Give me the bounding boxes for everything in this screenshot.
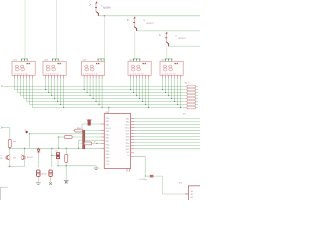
svg-text:RA0: RA0 <box>126 121 130 124</box>
pin IC1 right 9 <box>131 142 135 144</box>
pins of LD4 (top) <box>134 59 140 62</box>
junction LD2 pin 4 <box>54 98 55 99</box>
wire rail to T2 <box>24 148 26 155</box>
wire joining top pins LD2 <box>53 58 59 60</box>
pins of LD2 (top) <box>53 59 59 62</box>
wire LD2 pin 1 to bus <box>45 79 47 90</box>
wire segment bus line 1 <box>3 86 186 88</box>
resistor R13 <box>65 154 68 162</box>
junction S1 <box>29 133 30 134</box>
junction LD5 pin 2 <box>165 92 166 93</box>
svg-text:C3: C3 <box>55 151 57 153</box>
junction LD5 pin 3 <box>168 95 169 96</box>
junction LD5 pin 6 <box>177 104 178 105</box>
junction rail/C2 branch <box>51 148 52 149</box>
wire common anode display3 <box>103 16 105 60</box>
junction top pin LD2 <box>55 59 56 60</box>
wire T1-T2 emitter join <box>8 165 25 167</box>
wire LD3 pin 1 to bus <box>83 79 85 90</box>
wire LD5 pin 6 to bus <box>177 79 179 105</box>
wire LD3 pin 2 to bus <box>86 79 88 93</box>
capacitor C1 <box>37 170 40 176</box>
svg-text:RA4: RA4 <box>106 124 110 127</box>
svg-text:T6: T6 <box>143 20 145 22</box>
svg-text:VDD: VDD <box>125 131 130 133</box>
svg-text:12345678: 12345678 <box>83 73 98 75</box>
wire row 4 to IC1 <box>79 139 101 141</box>
wire IC1 right pin 10 to edge <box>135 145 200 147</box>
resistor R11 <box>64 136 72 139</box>
wire LD2 pin 7 to bus <box>63 79 65 108</box>
net arrow into T6 base <box>127 19 129 21</box>
resistor R5 (segment) <box>187 94 196 97</box>
svg-text:4x7SEG: 4x7SEG <box>103 7 111 9</box>
wire LD2 pin 2 to bus <box>48 79 50 93</box>
wire long rail to IC1 <box>10 147 101 149</box>
wire bottom net to ground <box>95 166 97 168</box>
wire LD4 pin 3 to bus <box>136 79 138 96</box>
junction LD4 pin 1 <box>130 89 131 90</box>
7-segment display LD4 <box>128 61 151 75</box>
wire segment bus line 6 from LD1 pin 5 <box>27 79 187 102</box>
wire C3 down <box>57 159 59 166</box>
wire to Q1 body <box>145 175 149 177</box>
wire Q1 to IC2 <box>154 176 189 194</box>
wire R13 down <box>65 163 67 166</box>
svg-text:BC557C: BC557C <box>147 23 155 25</box>
pin IC1 left <box>101 139 105 141</box>
wire corner to R3 <box>2 128 10 140</box>
junction R12 row <box>96 143 97 144</box>
junction top pin LD3 <box>104 59 105 60</box>
wire bottom net down <box>65 166 67 180</box>
wire R8 right stub <box>196 104 198 106</box>
wire LD2 pin 4 to bus <box>54 79 56 99</box>
pin IC1 right 2 <box>131 121 135 123</box>
junction LD4 pin 2 <box>133 92 134 93</box>
wire LD4 pin 1 to bus <box>130 79 132 90</box>
svg-text:VDD: VDD <box>106 161 111 163</box>
wire joining top pins LD5 <box>166 58 172 60</box>
pin IC1 left <box>101 136 105 138</box>
x-mark bottom <box>65 181 68 184</box>
wire switch row to IC1 <box>30 133 101 135</box>
pins of LD1 (bottom) <box>15 75 33 78</box>
wire T2 emitter down <box>24 160 26 167</box>
pins of LD2 (bottom) <box>46 75 64 78</box>
svg-text:RA3: RA3 <box>106 120 110 123</box>
junction LD3 pin 2 <box>86 92 87 93</box>
junction LD3 pin 6 <box>98 104 99 105</box>
svg-text:Q1 4MHz: Q1 4MHz <box>139 179 147 181</box>
wire R4 right stub <box>196 92 198 94</box>
transistor T1 <box>6 155 10 160</box>
junction top pin LD1 <box>27 59 28 60</box>
net arrow left (base drive) <box>1 127 3 129</box>
wire rail to C2 <box>51 148 53 167</box>
junction C3/bottom net <box>57 165 58 166</box>
diode D2 <box>37 149 40 152</box>
wire D2 to C1 <box>38 152 40 167</box>
wire rail digit5 (T7 collector) <box>169 45 200 47</box>
wire LD3 pin 4 to bus <box>92 79 94 99</box>
junction rail/row4 branch <box>78 148 79 149</box>
wire joining top pins LD4 <box>134 58 140 60</box>
junction rail/T2 <box>24 148 25 149</box>
svg-text:12345678: 12345678 <box>130 73 145 75</box>
junction LD2 pin 6 <box>60 104 61 105</box>
wire R3 right stub <box>196 89 198 91</box>
svg-text:RB6: RB6 <box>126 137 130 139</box>
svg-text:12345678: 12345678 <box>14 73 29 75</box>
wire LD5 pin 3 to bus <box>168 79 170 96</box>
svg-text:RB7: RB7 <box>126 134 130 136</box>
wire LD3 pin 6 to bus <box>98 79 100 105</box>
junction top pin LD1 <box>24 59 25 60</box>
junction LD2 pin 7 <box>63 107 64 108</box>
transistor T7 <box>165 32 168 47</box>
net arrow left edge <box>1 85 3 87</box>
svg-text:RB1: RB1 <box>106 138 110 140</box>
wire common anode display4 <box>134 31 136 59</box>
junction top pin LD4 <box>136 59 137 60</box>
wire LD5 pin 4 to bus <box>171 79 173 99</box>
pin IC1 right 1 <box>131 118 135 120</box>
svg-text:A2: A2 <box>191 196 193 199</box>
wire segment bus line 7 from LD1 pin 6 <box>30 79 187 105</box>
7-segment display LD5 <box>160 61 183 75</box>
svg-text:RB4: RB4 <box>106 148 110 150</box>
wire C2 down <box>50 176 52 182</box>
wire row 5 to IC1 <box>81 142 101 144</box>
svg-text:A1: A1 <box>191 193 193 196</box>
junction LD5 pin 5 <box>174 101 175 102</box>
svg-text:RB0: RB0 <box>106 134 110 136</box>
wire common anode display2 (from top) <box>56 0 58 60</box>
wire rail to R13 <box>65 148 67 154</box>
wire LD4 pin 4 to bus <box>139 79 141 99</box>
wire IC1 right pin 9 to edge <box>135 142 200 144</box>
wire IC1 right pin 3 to edge <box>135 124 200 126</box>
wire IC1 right pin 7 to edge <box>135 136 200 138</box>
wire R2 right stub <box>196 86 198 88</box>
junction Q1 <box>145 176 146 177</box>
pin IC1 bottom stubs <box>126 169 128 172</box>
wire IC1 right pin 11 to edge <box>135 148 200 150</box>
svg-text:10k: 10k <box>13 141 16 143</box>
svg-text:RB6: RB6 <box>106 154 110 156</box>
wire row 1 to IC1 <box>73 130 101 132</box>
wire IC1 right pin 6 to edge <box>135 133 200 135</box>
wire row A to IC1 <box>82 123 101 125</box>
svg-text:S1: S1 <box>25 130 27 132</box>
pin IC1 right 7 <box>131 136 135 138</box>
microcontroller IC1 <box>104 114 130 169</box>
junction LD4 pin 7 <box>148 107 149 108</box>
pin IC1 left <box>101 133 105 135</box>
wire LD5 pin 7 to bus <box>180 79 182 108</box>
svg-text:RB5: RB5 <box>126 140 130 142</box>
svg-text:RB3: RB3 <box>126 146 130 148</box>
svg-text:RB5: RB5 <box>106 151 110 153</box>
frame corner wire <box>1 187 8 200</box>
junction LD3 pin 1 <box>83 89 84 90</box>
resistor R10 <box>75 129 83 132</box>
svg-text:RB2: RB2 <box>126 149 130 151</box>
transistor T6 <box>133 16 136 31</box>
junction R3/rail <box>9 148 10 149</box>
wire segment bus line 2 from LD1 pin 1 <box>15 79 187 90</box>
wire LD4 pin 7 to bus <box>148 79 150 108</box>
resistor R3 <box>8 140 11 148</box>
junction LD2 pin 1 <box>45 89 46 90</box>
pins of LD3 (bottom) <box>84 75 102 78</box>
junction LD5 pin 1 <box>162 89 163 90</box>
junction C2 branch / cap E row <box>51 155 52 156</box>
pin IC1 right 11 <box>131 148 135 150</box>
svg-text:1u: 1u <box>45 174 47 176</box>
wire R5 right stub <box>196 95 198 97</box>
wire common anode display5 <box>166 46 168 59</box>
junction LD2 pin 5 <box>57 101 58 102</box>
wire segment bus line 5 from LD1 pin 4 <box>24 79 187 99</box>
net arrow into T5 base <box>89 4 91 6</box>
wire R3 to T1 <box>9 148 11 155</box>
capacitor C3 (electrolytic) <box>56 153 59 159</box>
wire IC1 right pin 8 to edge <box>135 139 200 141</box>
junction rail/row3 branch <box>58 148 59 149</box>
junction top pin LD3 <box>98 59 99 60</box>
junction LD5 pin 4 <box>171 98 172 99</box>
svg-text:MCLR: MCLR <box>106 128 112 130</box>
ground right <box>94 168 99 170</box>
wire IC1 to Q1 <box>134 157 145 176</box>
junction top pin LD5 <box>168 59 169 60</box>
7-segment display LD2 <box>43 61 66 75</box>
junction top pin LD1 <box>21 59 22 60</box>
junction top pin LD4 <box>133 59 134 60</box>
wire row3 branch down to rail <box>58 137 60 148</box>
svg-text:OSC1: OSC1 <box>124 125 129 127</box>
junction R13/bottom net <box>66 165 67 166</box>
wire to C3 <box>52 154 56 156</box>
svg-text:RA1: RA1 <box>126 118 130 121</box>
junction LD2 pin 3 <box>51 95 52 96</box>
junction top pin LD3 <box>101 59 102 60</box>
svg-text:BC557C: BC557C <box>179 38 187 40</box>
resistor R4 (segment) <box>187 91 196 94</box>
resistor R12 <box>84 142 92 145</box>
junction IC1 top pin/bus <box>108 107 109 108</box>
junction rail/R13 branch <box>66 148 67 149</box>
junction LD3 pin 3 <box>89 95 90 96</box>
IC2 pin names <box>191 190 193 199</box>
svg-text:RA2: RA2 <box>106 117 110 120</box>
pin IC1 left <box>101 123 105 125</box>
wire LD2 pin 3 to bus <box>51 79 53 96</box>
pin IC1 right 8 <box>131 139 135 141</box>
wire LD2 pin 6 to bus <box>60 79 62 105</box>
junction top pin LD5 <box>171 59 172 60</box>
junction LD4 pin 5 <box>142 101 143 102</box>
wire IC1 right pin 4 to edge <box>135 127 200 129</box>
wire IC1 right pin 2 to edge <box>135 121 200 123</box>
wire row 3 to IC1 <box>58 136 101 138</box>
svg-text:T0: T0 <box>127 155 129 157</box>
wire rail digit3 (T5 collector) <box>98 15 200 17</box>
pins of LD3 (top) <box>98 59 104 62</box>
wire LD5 pin 1 to bus <box>162 79 164 90</box>
ground under C1 <box>36 183 41 185</box>
svg-text:RB3: RB3 <box>106 144 110 146</box>
pin IC1 right 10 <box>131 145 135 147</box>
wire LD3 pin 5 to bus <box>95 79 97 102</box>
pin IC1 left <box>101 147 105 149</box>
wire LD3 pin 3 to bus <box>89 79 91 96</box>
wire R9 right stub <box>196 107 198 109</box>
junction LD3 pin 5 <box>95 101 96 102</box>
svg-text:RB7: RB7 <box>106 158 110 160</box>
wire LD5 pin 2 to bus <box>165 79 167 93</box>
junction LD2 pin 2 <box>48 92 49 93</box>
wire LD4 pin 6 to bus <box>145 79 147 105</box>
svg-text:RB4: RB4 <box>126 143 130 145</box>
wire LD3 pin 7 to bus <box>101 79 103 108</box>
junction LD5 pin 7 <box>180 107 181 108</box>
junction rail/display3 drop <box>104 15 105 16</box>
svg-text:4k7: 4k7 <box>13 158 16 160</box>
resistor R3 (segment) <box>187 88 196 91</box>
junction top pin LD2 <box>58 59 59 60</box>
junction row3 branch <box>58 136 59 137</box>
wire LD2 pin 5 to bus <box>57 79 59 102</box>
wire common anode display1 (from top) <box>24 0 26 60</box>
pin IC1 right to Q1 <box>131 156 134 158</box>
pins of LD4 (bottom) <box>131 75 149 78</box>
wire LD4 pin 2 to bus <box>133 79 135 93</box>
svg-text:OSC2: OSC2 <box>124 128 129 130</box>
7-segment display LD3 <box>82 61 105 75</box>
svg-text:A0: A0 <box>191 190 193 193</box>
wire IC1 right pin 5 to edge <box>135 130 200 132</box>
pins of LD5 (top) <box>166 59 172 62</box>
IC1 left pin names <box>106 117 112 166</box>
junction top pin LD4 <box>139 59 140 60</box>
capacitor C2 <box>49 170 52 176</box>
junction LD3 pin 4 <box>92 98 93 99</box>
transistor T2 <box>21 155 25 160</box>
wire T1 emitter down <box>9 160 11 167</box>
pin IC1 left <box>101 142 105 144</box>
pin IC1 right 6 <box>131 133 135 135</box>
wire LD5 pin 5 to bus <box>174 79 176 102</box>
junction emitters <box>9 166 10 167</box>
pin IC1 right 4 <box>131 127 135 129</box>
resistor R9 (segment) <box>187 106 196 109</box>
IC1 right pin names <box>124 118 130 157</box>
wire row4 drop to rail <box>78 140 80 148</box>
resistor R8 (segment) <box>187 103 196 106</box>
wire IC1 top pin to bus line 8 <box>108 108 110 114</box>
svg-text:BC547: BC547 <box>27 157 33 159</box>
svg-text:1k: 1k <box>94 142 96 144</box>
wire IC1 right pin 1 to edge <box>135 118 200 120</box>
junction LD3 pin 7 <box>101 107 102 108</box>
wire R7 right stub <box>196 101 198 103</box>
wire bottom net <box>58 165 96 167</box>
transistor T5 <box>95 1 98 16</box>
junction rail/C1 branch <box>38 148 39 149</box>
junction LD4 pin 4 <box>139 98 140 99</box>
wire rail digit4 (T6 collector) <box>137 30 200 32</box>
resistor network RN1 <box>83 130 85 148</box>
wire segment bus line 8 from LD1 pin 7 <box>33 79 187 108</box>
resistor R2 (segment) <box>187 85 196 88</box>
x-mark under C2 <box>49 182 52 185</box>
wire joining top pins LD1 <box>22 58 28 60</box>
wire segment bus line 3 from LD1 pin 2 <box>18 79 187 93</box>
pushbutton S1 <box>25 131 28 133</box>
resistor R6 (segment) <box>187 97 196 100</box>
svg-text:RB2: RB2 <box>106 141 110 143</box>
resistor R7 (segment) <box>187 100 196 103</box>
7-segment display LD1 <box>12 61 35 75</box>
ground mid <box>64 181 69 183</box>
pin IC1 left <box>101 130 105 132</box>
wire LD4 pin 5 to bus <box>142 79 144 102</box>
pin IC1 right (n/c stub) <box>131 152 134 154</box>
wire joining top pins LD3 <box>98 58 104 60</box>
junction top pin LD5 <box>165 59 166 60</box>
pin IC1 right 5 <box>131 130 135 132</box>
diode D1 <box>87 119 92 125</box>
svg-text:12345678: 12345678 <box>162 73 177 75</box>
wire row A drop to RN1 <box>81 124 83 130</box>
wire S1 down to rail <box>29 134 31 149</box>
net arrow into T7 base <box>159 34 161 36</box>
svg-text:12345678: 12345678 <box>45 73 60 75</box>
IC2 (partial, bottom-right) <box>188 186 202 202</box>
pin IC2 left <box>185 193 188 195</box>
pins of LD5 (bottom) <box>163 75 181 78</box>
junction LD4 pin 6 <box>145 104 146 105</box>
svg-text:T7: T7 <box>175 36 177 38</box>
pins of LD1 (top) <box>22 59 28 62</box>
pin IC1 right 3 <box>131 124 135 126</box>
junction top pin LD2 <box>52 59 53 60</box>
wire R6 right stub <box>196 98 198 100</box>
wire C1 to ground <box>37 176 39 182</box>
crystal Q1 <box>150 175 153 177</box>
junction LD4 pin 3 <box>136 95 137 96</box>
wire segment bus line 4 from LD1 pin 3 <box>21 79 187 96</box>
